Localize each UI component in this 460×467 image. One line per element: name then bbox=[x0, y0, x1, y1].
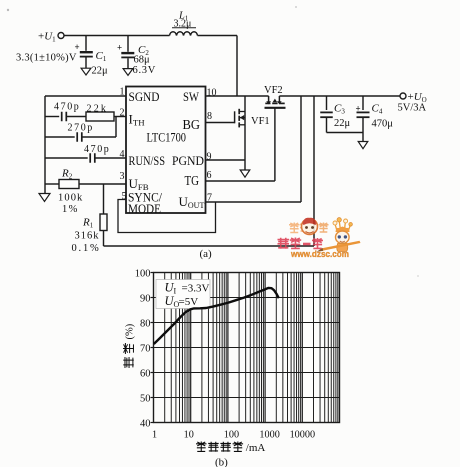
svg-text:60: 60 bbox=[140, 368, 151, 379]
svg-text:/mA: /mA bbox=[246, 442, 266, 454]
svg-text:PGND: PGND bbox=[172, 154, 204, 168]
svg-text:+: + bbox=[75, 42, 80, 52]
svg-text:=5V: =5V bbox=[179, 296, 199, 308]
svg-text:10000: 10000 bbox=[290, 429, 315, 440]
svg-text:SGND: SGND bbox=[129, 89, 160, 104]
svg-text:270p: 270p bbox=[68, 123, 94, 134]
svg-text:100: 100 bbox=[224, 429, 239, 440]
svg-text:40: 40 bbox=[140, 418, 151, 429]
svg-text:+: + bbox=[117, 43, 122, 53]
svg-text:5: 5 bbox=[122, 191, 127, 202]
svg-text:22k: 22k bbox=[87, 104, 109, 115]
svg-text:470p: 470p bbox=[54, 102, 80, 113]
svg-text:10: 10 bbox=[184, 429, 194, 440]
svg-text:5V/3A: 5V/3A bbox=[398, 103, 427, 114]
svg-text:www.dzsc.com: www.dzsc.com bbox=[290, 249, 349, 260]
svg-text:1%: 1% bbox=[62, 204, 79, 215]
svg-text:LTC1700: LTC1700 bbox=[147, 130, 187, 145]
svg-text:470p: 470p bbox=[84, 144, 110, 155]
svg-text:100: 100 bbox=[135, 268, 151, 279]
svg-text:8: 8 bbox=[207, 111, 212, 122]
svg-text:(a): (a) bbox=[200, 248, 213, 260]
svg-text:(%): (%) bbox=[124, 323, 135, 339]
svg-text:22μ: 22μ bbox=[92, 66, 109, 77]
svg-text:70: 70 bbox=[140, 343, 151, 354]
svg-text:MODE: MODE bbox=[128, 202, 161, 216]
svg-text:6.3V: 6.3V bbox=[133, 65, 157, 76]
svg-text:SW: SW bbox=[183, 89, 200, 104]
svg-text:VF1: VF1 bbox=[251, 116, 270, 127]
svg-text:RUN/SS: RUN/SS bbox=[129, 154, 166, 168]
svg-text:1000: 1000 bbox=[259, 429, 279, 440]
svg-text:22μ: 22μ bbox=[334, 118, 351, 129]
svg-text:470μ: 470μ bbox=[372, 119, 394, 130]
svg-text:TG: TG bbox=[185, 173, 200, 188]
svg-text:VF2: VF2 bbox=[264, 85, 283, 96]
svg-text:100k: 100k bbox=[58, 193, 83, 204]
svg-text:316k: 316k bbox=[75, 231, 100, 242]
svg-text:50: 50 bbox=[140, 393, 151, 404]
svg-text:+: + bbox=[356, 104, 361, 114]
svg-text:0.1%: 0.1% bbox=[72, 243, 101, 254]
svg-text:9: 9 bbox=[207, 152, 212, 163]
svg-text:3: 3 bbox=[120, 171, 125, 182]
svg-text:=3.3V: =3.3V bbox=[182, 283, 210, 295]
svg-text:6: 6 bbox=[207, 170, 212, 181]
svg-text:(b): (b) bbox=[215, 457, 228, 467]
svg-text:3.3(1±10%)V: 3.3(1±10%)V bbox=[16, 53, 77, 64]
svg-text:3.2μ: 3.2μ bbox=[174, 19, 192, 30]
svg-text:90: 90 bbox=[140, 293, 151, 304]
svg-text:10: 10 bbox=[207, 88, 217, 99]
svg-text:1: 1 bbox=[152, 429, 157, 440]
svg-text:80: 80 bbox=[140, 318, 151, 329]
